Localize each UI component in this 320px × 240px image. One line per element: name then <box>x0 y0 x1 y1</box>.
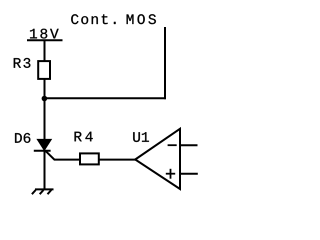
net label "Cont." <box>71 14 115 24</box>
power rail label 18V <box>30 29 59 39</box>
resistor R4 body <box>80 153 99 164</box>
wire: R3 bottom through junction down to diode anode <box>44 79 46 140</box>
op-amp U1 triangle <box>135 129 180 189</box>
wire: 18V rail down to R3 top <box>44 40 46 61</box>
power rail bar for 18V <box>27 39 63 41</box>
non-inverting input stub wire <box>181 173 198 175</box>
wire: R4 to op-amp output apex <box>99 159 136 161</box>
gate diagonal wire from diode to R4 <box>46 151 80 159</box>
diode D6 anode triangle (filled, pointing down) <box>37 139 51 150</box>
resistor R3 body <box>38 61 50 79</box>
ground symbol <box>32 189 54 194</box>
inverting input minus sign <box>168 144 177 146</box>
net label "MOS" <box>127 14 156 24</box>
resistor R4 label <box>75 132 93 142</box>
non-inverting input plus sign <box>166 169 175 179</box>
wire: corner up to Cont. MOS label (vertical) <box>164 27 166 99</box>
wire: cathode down to ground <box>44 151 46 190</box>
diode D6 cathode bar <box>34 150 51 152</box>
junction node dot <box>42 96 48 102</box>
diode D6 label <box>15 133 30 143</box>
resistor R3 label <box>14 58 31 68</box>
inverting input stub wire <box>181 144 198 146</box>
op-amp U1 label <box>133 132 149 142</box>
wire: junction to right corner (horizontal) <box>44 97 166 99</box>
